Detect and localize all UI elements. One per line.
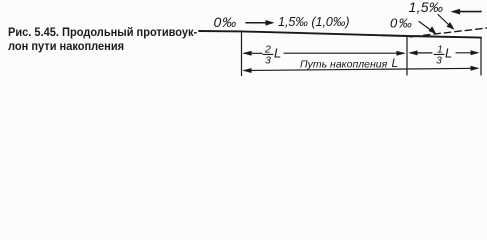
dimension line 1/3 L xyxy=(410,52,477,54)
arrow to 1,5‰ label xyxy=(246,22,269,24)
svg-text:L: L xyxy=(445,46,452,61)
svg-text:Путь накопления: Путь накопления xyxy=(300,59,388,71)
svg-text:3: 3 xyxy=(436,55,442,67)
dim arrowheads 2/3 L xyxy=(243,51,252,56)
svg-text:L: L xyxy=(274,46,281,61)
extension line middle xyxy=(406,36,408,75)
arrowhead right of 1,5‰ arrow xyxy=(266,20,275,26)
dim arrowheads lower xyxy=(243,68,252,73)
fraction bar 1/3 xyxy=(434,53,444,55)
svg-text:1,5‰: 1,5‰ xyxy=(409,0,444,15)
svg-text:L: L xyxy=(392,56,399,70)
arrow left-pointing top right xyxy=(455,11,481,13)
extension line left xyxy=(241,32,243,76)
arrowhead 1,5‰ leader xyxy=(447,22,455,30)
svg-text:0‰: 0‰ xyxy=(214,14,238,30)
arrowhead left-pointing top right xyxy=(451,9,461,15)
leader arrow 1,5‰ to dashed segment xyxy=(438,15,450,27)
dashed counter-slope 1,5‰ xyxy=(410,28,487,37)
dimension line 2/3 L xyxy=(244,52,404,54)
dimension line Путь накопления L xyxy=(244,68,477,70)
svg-text:0‰: 0‰ xyxy=(390,16,413,31)
caption: Рис. 5.45 xyxy=(8,25,201,53)
svg-text:1,5‰ (1,0‰): 1,5‰ (1,0‰) xyxy=(278,15,350,29)
profile line (0‰ then 1,5‰ descending then 0‰) xyxy=(199,31,481,38)
fraction bar 2/3 xyxy=(263,53,273,55)
svg-text:3: 3 xyxy=(265,55,271,67)
leader arrow 0‰ to flat segment xyxy=(419,22,432,32)
arrowhead 0‰ leader xyxy=(429,26,437,34)
extension line right xyxy=(480,38,482,75)
dim arrowheads 1/3 L xyxy=(409,50,418,55)
